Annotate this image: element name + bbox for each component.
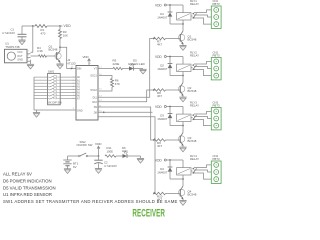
svg-text:LED: LED <box>122 149 127 153</box>
relay RLY4 contacts <box>191 168 197 174</box>
diode D3 1N4007 flyback <box>157 107 172 126</box>
U2 pin name labels <box>77 68 97 115</box>
wire VDD rail block 3 <box>166 106 183 108</box>
relay RLY2 coil <box>170 51 199 77</box>
wire U2 D9 to relay block 3 <box>98 107 155 141</box>
svg-text:4.7uF/16V: 4.7uF/16V <box>104 164 117 168</box>
ground (emitter Q1) <box>179 46 186 51</box>
svg-text:SW1 ADDRES SET TRANSMITTER AN: SW1 ADDRES SET TRANSMITTER AND RECIVER A… <box>3 199 178 204</box>
wire U2 D10 to relay block 2 <box>98 89 155 102</box>
wire relay contacts to CN3 <box>194 111 211 125</box>
ground (emitter Q4) <box>179 201 186 206</box>
pin stubs U1 <box>27 54 31 61</box>
wire Q1 collector to DIN <box>60 47 76 69</box>
VDD power symbol (U2 pin 18) <box>83 55 92 65</box>
connector CN3 PBT3 terminal block <box>211 101 221 130</box>
VDD power symbol (block 4) <box>155 159 166 163</box>
ground (emitter Q2) <box>179 97 186 102</box>
title RECEIVER <box>132 207 165 219</box>
VDD power symbol (supply node) <box>95 142 102 157</box>
diode D4 1N4007 flyback <box>157 160 172 179</box>
svg-text:RELAY: RELAY <box>190 53 199 57</box>
ground (C1) <box>18 40 25 45</box>
svg-text:3.3K: 3.3K <box>37 49 43 53</box>
svg-text:U1 INFRA RED SENSOR: U1 INFRA RED SENSOR <box>3 192 52 197</box>
svg-text:VCC: VCC <box>17 51 22 54</box>
svg-text:GND: GND <box>17 59 23 62</box>
transistor Q1 BC548 <box>178 24 196 46</box>
svg-text:47K: 47K <box>115 82 120 86</box>
capacitor C1 4.7uF/16V <box>2 26 27 40</box>
svg-text:GREEN LED: GREEN LED <box>128 62 145 66</box>
svg-text:PBT3: PBT3 <box>213 53 220 57</box>
IR sensor U1 TSOP1738 <box>5 42 28 63</box>
capacitor C2 4.7uF/16V <box>94 156 117 169</box>
resistor R11 100E <box>105 146 116 157</box>
resistor R6 47K oscillator <box>99 76 112 92</box>
svg-text:6V: 6V <box>73 165 77 169</box>
svg-text:D5 VALID TRANSMISSION: D5 VALID TRANSMISSION <box>3 186 56 191</box>
resistor R10 4K7 base resistor <box>154 192 181 201</box>
svg-text:D10: D10 <box>92 101 97 104</box>
svg-text:ON/OFF SW: ON/OFF SW <box>77 143 93 147</box>
diode D2 1N4007 flyback <box>157 57 172 76</box>
wire VDD rail block 1 <box>166 4 183 6</box>
wire VDD top rail <box>22 25 63 27</box>
VDD power symbol (block 2) <box>155 55 166 59</box>
relay RLY2 contacts <box>191 64 197 70</box>
svg-text:SW1: SW1 <box>48 70 55 74</box>
svg-text:OUT: OUT <box>17 55 23 58</box>
DIP switch SW1 8X DIP SW <box>48 70 63 105</box>
resistor R4 3.3K series from U1 OUT <box>31 46 57 57</box>
relay RLY4 coil <box>170 154 199 180</box>
wire relay contacts to CN4 <box>194 165 211 179</box>
relay RLY3 contacts <box>191 114 197 120</box>
VDD power symbol (block 1) <box>155 4 166 8</box>
svg-text:GND: GND <box>77 109 83 112</box>
svg-text:TSOP1738: TSOP1738 <box>5 45 20 49</box>
svg-text:1N4007: 1N4007 <box>157 117 168 121</box>
svg-text:OSC2: OSC2 <box>90 89 97 92</box>
svg-text:RELAY: RELAY <box>190 2 199 6</box>
svg-text:DIN: DIN <box>77 68 82 71</box>
connector CN2 PBT3 terminal block <box>211 51 221 80</box>
svg-text:220E: 220E <box>113 62 120 66</box>
relay RLY1 coil <box>170 0 199 25</box>
svg-text:OSC1: OSC1 <box>90 75 97 78</box>
svg-text:BC548: BC548 <box>188 193 197 197</box>
note text block <box>3 172 178 205</box>
svg-text:VDD: VDD <box>155 105 162 109</box>
wire relay contacts to CN1 <box>194 10 211 24</box>
transistor Q1 BC548 <box>49 44 62 64</box>
svg-text:D6 POWER INDICATION: D6 POWER INDICATION <box>3 179 52 184</box>
svg-text:BC548: BC548 <box>49 48 58 52</box>
svg-text:BC548: BC548 <box>188 139 197 143</box>
svg-text:ALL RELAY 6V: ALL RELAY 6V <box>3 172 32 177</box>
svg-text:VDD: VDD <box>83 55 89 59</box>
LED D6 power indication <box>116 146 141 159</box>
ground (emitter Q1) <box>56 64 63 69</box>
svg-text:VDD: VDD <box>155 4 162 8</box>
VDD power symbol (block 3) <box>155 105 166 109</box>
transistor Q3 BC548 <box>178 126 196 148</box>
svg-text:PBT3: PBT3 <box>213 103 220 107</box>
svg-text:PBT3: PBT3 <box>213 2 220 6</box>
svg-text:BC548: BC548 <box>188 89 197 93</box>
svg-text:4.7uF/16V: 4.7uF/16V <box>2 31 15 35</box>
wires SW1 to U2 address pins <box>60 77 76 98</box>
ground (SW1 common rail) <box>33 113 40 118</box>
svg-text:HT12D: HT12D <box>67 61 76 65</box>
wire relay contacts to CN2 <box>194 61 211 75</box>
transistor Q4 BC548 <box>178 179 196 201</box>
ground (D6) <box>137 158 144 163</box>
svg-text:VT: VT <box>94 68 98 71</box>
relay RLY1 contacts <box>191 13 197 19</box>
ground (emitter Q3) <box>179 147 186 152</box>
svg-text:4K7: 4K7 <box>157 43 163 47</box>
wire U1 VCC to top rail <box>31 26 33 52</box>
wire VDD rail block 2 <box>166 56 183 58</box>
wire VDD rail block 4 <box>166 159 183 161</box>
svg-text:1N4007: 1N4007 <box>157 67 168 71</box>
transistor Q2 BC548 <box>178 76 196 98</box>
diode D1 1N4007 flyback <box>157 5 172 24</box>
switch SW2 ON/OFF SW <box>68 140 99 157</box>
svg-text:1N4007: 1N4007 <box>157 170 168 174</box>
ground (D5) <box>139 69 146 74</box>
svg-text:RELAY: RELAY <box>190 157 199 161</box>
wire SW1 common bus <box>34 77 48 110</box>
wire ground rail (SW1 common / U2 GND pin 9) <box>34 110 76 113</box>
wire U2 D11 to relay block 1 <box>98 38 155 98</box>
resistor R3 10K pull-up <box>59 26 69 48</box>
svg-text:BC548: BC548 <box>188 38 197 42</box>
svg-text:1N4007: 1N4007 <box>157 15 168 19</box>
ground (U1) <box>27 64 34 69</box>
svg-text:PBT3: PBT3 <box>213 157 220 161</box>
resistor R8 4K7 base resistor <box>154 89 181 98</box>
svg-text:4K7: 4K7 <box>157 94 163 98</box>
svg-text:D11: D11 <box>93 96 98 99</box>
svg-text:10K: 10K <box>63 33 68 37</box>
op-amp U2 HT12D decoder IC <box>67 58 99 120</box>
wire U2 D8 stub <box>98 111 153 113</box>
svg-text:VDD: VDD <box>64 24 72 28</box>
svg-text:VDD: VDD <box>95 142 102 146</box>
svg-text:470: 470 <box>41 31 46 35</box>
svg-text:VDD: VDD <box>155 55 162 59</box>
svg-text:4K7: 4K7 <box>157 144 163 148</box>
connector CN4 PBT3 terminal block <box>211 154 221 183</box>
svg-text:VDD: VDD <box>155 159 162 163</box>
connector CN1 PBT3 terminal block <box>211 0 221 28</box>
ground (BT1) <box>64 169 71 174</box>
ground (C2) <box>95 169 102 174</box>
wire U2 D8 to relay block 4 <box>98 117 155 195</box>
battery BT1 6V <box>63 156 78 169</box>
svg-text:100E: 100E <box>107 149 114 153</box>
svg-text:8X DIP SW: 8X DIP SW <box>48 101 62 105</box>
svg-text:RECEIVER: RECEIVER <box>132 207 165 219</box>
U2 pin numbers <box>71 66 103 112</box>
LED D5 GREEN LED valid transmission <box>123 59 145 71</box>
resistor R5 220E <box>98 59 123 70</box>
resistor R9 4K7 base resistor <box>154 139 181 148</box>
node VDD (top rail net label) <box>64 24 72 28</box>
relay RLY3 coil <box>170 101 199 127</box>
svg-text:RELAY: RELAY <box>190 103 199 107</box>
resistor R1 470 <box>35 25 47 36</box>
wire U1 GND down <box>30 60 32 65</box>
resistor R7 4K7 base resistor <box>154 37 181 46</box>
